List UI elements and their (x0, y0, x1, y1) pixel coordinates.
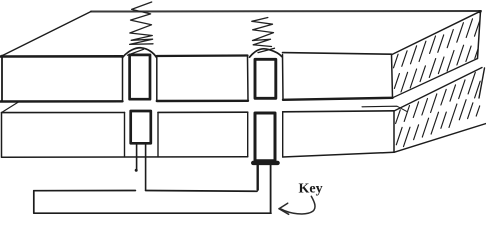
svg-text:Key: Key (299, 182, 323, 197)
